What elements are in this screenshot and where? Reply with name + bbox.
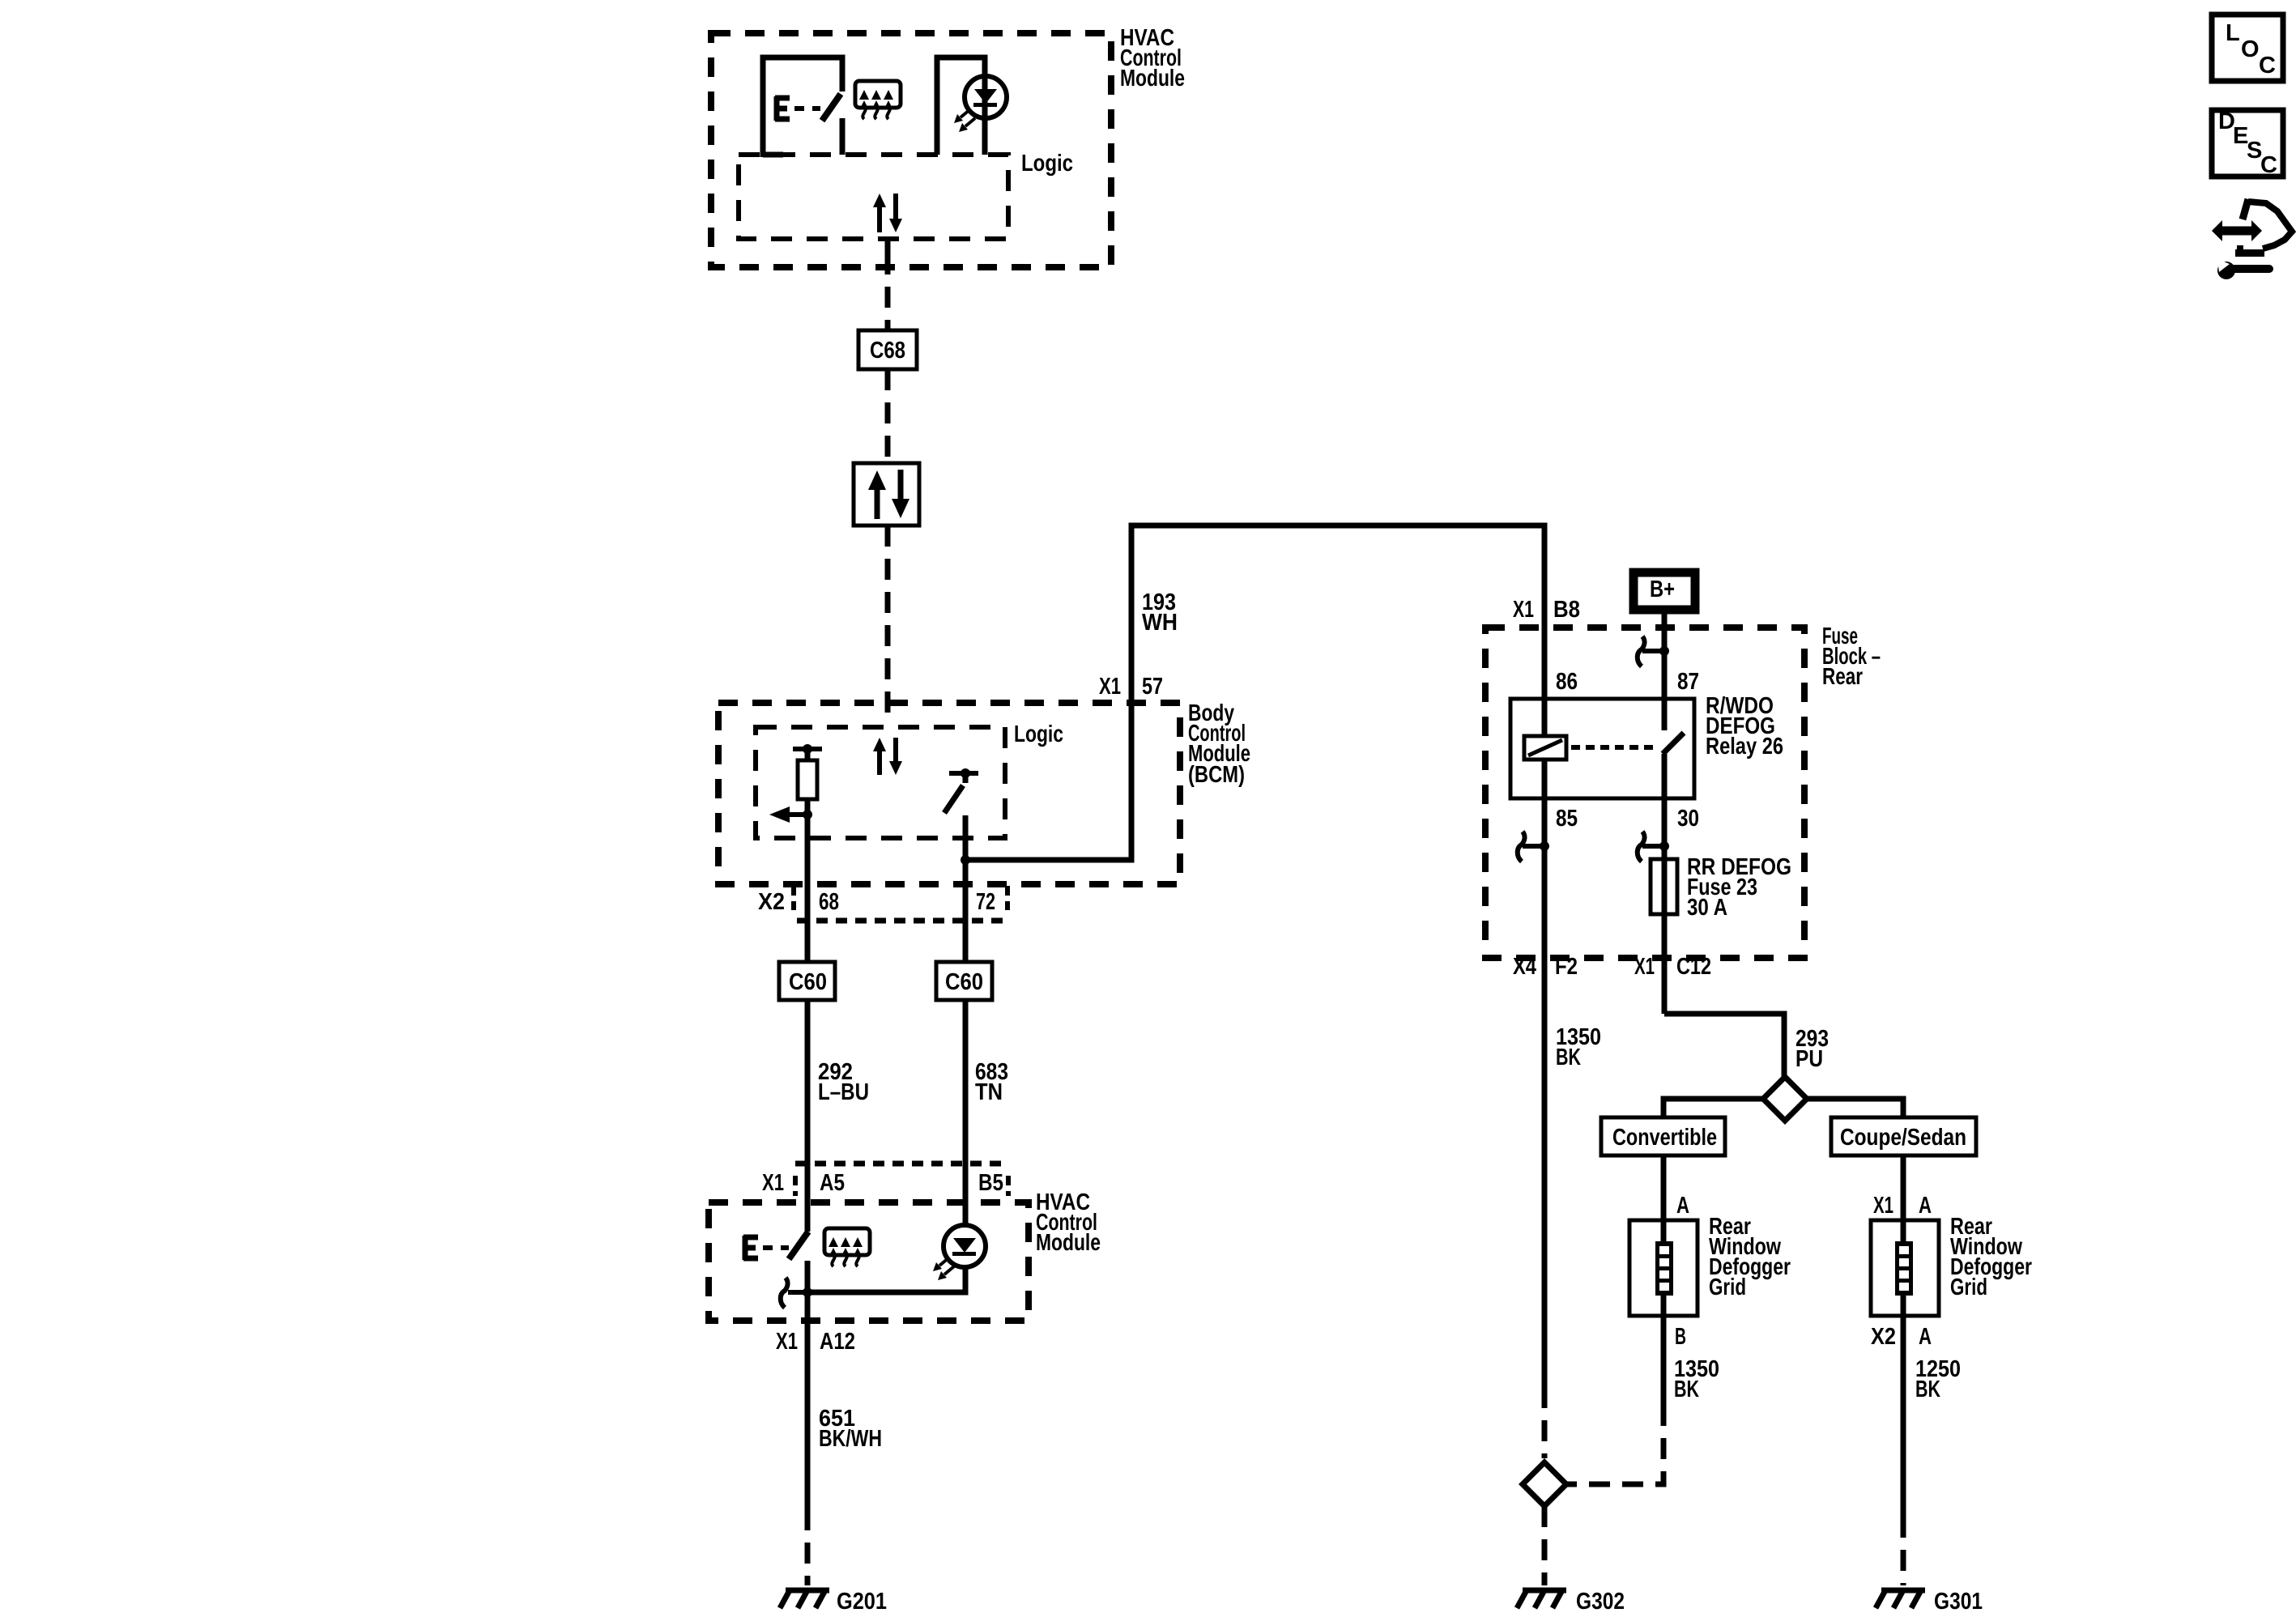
wire label 293 PU (1795, 1026, 1829, 1072)
ground G301 (1876, 1590, 1925, 1608)
svg-text:X1: X1 (1634, 954, 1655, 980)
pin labels X1 B8 (1513, 597, 1580, 623)
HVAC Control Module (top) label (1120, 25, 1185, 91)
svg-text:B8: B8 (1553, 597, 1580, 623)
pin labels X4 F2 X1 C12 (1513, 954, 1711, 980)
connector C68 (858, 330, 917, 369)
svg-text:X1: X1 (776, 1329, 798, 1355)
defog switch housing (top module) (763, 57, 842, 157)
switch actuator E symbol (bottom module) (743, 1236, 758, 1260)
BCM label (1188, 700, 1250, 788)
LED return wire (bottom module) (807, 1267, 965, 1292)
ground terminal hook (bottom module) (781, 1278, 788, 1308)
indicator LED (bottom module) (944, 1225, 986, 1267)
wire 86 from X1 B8 (1542, 628, 1548, 736)
svg-text:Coupe/Sedan: Coupe/Sedan (1840, 1125, 1966, 1151)
pull-up resistor branch tick (BCM) (793, 747, 822, 751)
service icon wrench (2217, 259, 2269, 279)
svg-text:BK: BK (1556, 1045, 1581, 1070)
connector C60 (right) (936, 962, 992, 1000)
svg-text:C12: C12 (1676, 954, 1711, 980)
wire Coupe/Sedan to grid (1901, 1155, 1906, 1241)
svg-text:Grid: Grid (1709, 1274, 1746, 1300)
pin labels X2 68 72 (758, 889, 995, 915)
service icon hand outline (2235, 199, 2292, 257)
wire label 193 WH (1142, 589, 1178, 636)
wire 293 PU (1664, 1014, 1784, 1077)
svg-text:A: A (1919, 1324, 1932, 1350)
svg-text:A12: A12 (820, 1329, 855, 1355)
wire label 1250 BK (1915, 1356, 1961, 1402)
svg-text:C60: C60 (789, 969, 827, 995)
dashed wire 1350 BK to splice (1542, 1387, 1548, 1458)
node at 193 junction (961, 855, 970, 865)
svg-text:WH: WH (1142, 610, 1178, 636)
svg-text:G302: G302 (1576, 1589, 1625, 1615)
relay contact wire 87 (1662, 651, 1668, 730)
dashed wire splice to G302 (1542, 1506, 1548, 1585)
wire label 683 TN (975, 1059, 1008, 1105)
svg-text:O: O (2241, 36, 2260, 62)
heated rear window icon (bottom module) (824, 1228, 870, 1266)
grid label (left) (1709, 1214, 1791, 1300)
BCM switch stub (963, 773, 969, 783)
svg-text:BK: BK (1915, 1377, 1940, 1402)
svg-text:A5: A5 (820, 1170, 845, 1196)
grid element (right) (1895, 1241, 1913, 1296)
serial data wire (module to C68) (885, 240, 891, 330)
wire grid left to B (1661, 1296, 1667, 1405)
switch link dashes (bottom module) (763, 1245, 789, 1250)
up/down comm arrows (top module logic) (873, 194, 902, 232)
switch blade (top module) (822, 94, 841, 121)
wire grid right down (1901, 1296, 1906, 1517)
svg-text:TN: TN (975, 1079, 1003, 1105)
svg-text:30: 30 (1677, 806, 1699, 832)
svg-text:L–BU: L–BU (818, 1079, 869, 1105)
svg-text:X1: X1 (1873, 1193, 1893, 1219)
switch contact bar (BCM) (949, 771, 978, 776)
terminal hook 30 (1638, 832, 1669, 862)
svg-text:Relay 26: Relay 26 (1706, 734, 1783, 760)
LED light arrows (top module) (954, 109, 975, 132)
BCM switch blade (944, 785, 963, 813)
output arrow (BCM) (769, 806, 807, 823)
HVAC Control Module (bottom) label (1036, 1189, 1101, 1256)
dashed wire 1250 BK to G301 (1901, 1517, 1906, 1585)
relay label (1706, 693, 1783, 760)
grid label (right) (1950, 1214, 2032, 1300)
pin labels X2 A (right grid bottom) (1871, 1324, 1932, 1350)
Coupe/Sedan tag box (1831, 1117, 1976, 1155)
svg-text:A: A (1919, 1193, 1932, 1219)
connector X2 line (BCM bottom) (794, 886, 1007, 921)
svg-text:A: A (1676, 1193, 1689, 1219)
wire label 1350 BK (grid) (1674, 1356, 1719, 1402)
svg-text:85: 85 (1556, 806, 1578, 832)
node below resistor (803, 810, 812, 819)
svg-text:X1: X1 (1513, 597, 1534, 623)
svg-text:F2: F2 (1555, 954, 1578, 980)
svg-text:C68: C68 (870, 338, 905, 364)
svg-text:X1: X1 (762, 1170, 784, 1196)
pin labels 85 30 (1556, 806, 1699, 832)
svg-text:X1: X1 (1099, 674, 1121, 700)
svg-text:57: 57 (1142, 674, 1163, 700)
fuse RR DEFOG 23 (1651, 859, 1677, 914)
terminal hook 85 (1518, 832, 1549, 862)
serial data wire (C68 to data box) (885, 369, 891, 463)
ground G201 (780, 1590, 829, 1608)
svg-text:C60: C60 (945, 969, 983, 995)
rear window defogger grid box (left) (1629, 1220, 1698, 1316)
hook lead (bottom module) (788, 1290, 807, 1295)
terminal hook 87 (1638, 636, 1669, 666)
wire 683 TN (963, 1000, 969, 1225)
LOC icon (2212, 15, 2283, 81)
service icon double arrow (2212, 220, 2262, 241)
wire 193 WH net (965, 526, 1544, 860)
grid element (left) (1655, 1241, 1673, 1296)
splice diamond S (293 PU) (1763, 1077, 1807, 1121)
wire 30 (contact to C12) (1662, 754, 1668, 1014)
relay contact blade (1663, 733, 1684, 754)
svg-text:BK: BK (1674, 1377, 1699, 1402)
svg-text:C: C (2259, 53, 2276, 79)
switch fixed contact (top module) (840, 118, 846, 155)
ground G302 (1517, 1590, 1566, 1608)
dashed wire B to splice (1566, 1405, 1663, 1484)
switch actuator E symbol (top module) (775, 96, 790, 121)
wire label 292 L-BU (818, 1059, 869, 1105)
wire 292 (BCM to C60) (805, 815, 811, 962)
serial data wire (data box to BCM) (885, 526, 891, 724)
switch link dashes (top module) (794, 106, 820, 111)
svg-text:Module: Module (1120, 66, 1185, 91)
wire label 1350 BK (fuse block) (1556, 1024, 1601, 1070)
wire 292 L-BU (805, 1000, 811, 1232)
connector X1 line (HVAC bottom module top) (795, 1164, 1009, 1196)
heated rear window icon (top module) (855, 81, 901, 119)
svg-text:86: 86 (1556, 669, 1578, 695)
resistor R (BCM) (798, 749, 817, 815)
svg-text:30 A: 30 A (1687, 895, 1727, 921)
HVAC Control Module (top) dashed box (711, 33, 1111, 267)
svg-text:G301: G301 (1934, 1589, 1983, 1615)
svg-text:68: 68 (819, 889, 839, 915)
splice diamond (G302 branch) (1523, 1462, 1566, 1506)
pin labels X1 A (right grid) (1873, 1193, 1932, 1219)
svg-text:X4: X4 (1513, 954, 1536, 980)
svg-text:Grid: Grid (1950, 1274, 1987, 1300)
relay actuation dashes (1571, 745, 1657, 750)
wire Convertible to grid A (1661, 1155, 1667, 1241)
indicator LED housing (top module) (937, 57, 985, 155)
svg-text:87: 87 (1677, 669, 1699, 695)
Convertible tag box (1601, 1117, 1725, 1155)
svg-text:72: 72 (976, 889, 995, 915)
svg-text:G201: G201 (837, 1589, 887, 1615)
svg-text:Logic: Logic (1014, 721, 1063, 747)
Logic dashed box (BCM) (756, 727, 1005, 838)
wire B+ to terminal 87 (1662, 614, 1668, 651)
wire 85 (coil to X4 F2) (1542, 760, 1548, 1387)
svg-text:Module: Module (1036, 1230, 1101, 1256)
Fuse Block label (1822, 623, 1881, 690)
wire to Coupe/Sedan (1807, 1099, 1903, 1117)
HVAC Control Module (bottom) dashed box (709, 1202, 1029, 1321)
svg-text:Logic: Logic (1021, 151, 1073, 177)
pin labels X1 A5 B5 (762, 1170, 1003, 1196)
indicator LED (top module) (965, 76, 1007, 118)
wire to Convertible (1663, 1099, 1763, 1117)
relay coil (1524, 736, 1566, 760)
node at bottom module junction (803, 1287, 812, 1297)
node at BCM switch (961, 768, 970, 778)
svg-text:Convertible: Convertible (1612, 1125, 1717, 1151)
pin labels 86 87 (1556, 669, 1699, 695)
svg-text:C: C (2260, 152, 2277, 178)
LED light arrows (bottom module) (933, 1257, 954, 1280)
svg-text:Rear: Rear (1822, 664, 1863, 690)
svg-text:BK/WH: BK/WH (819, 1426, 882, 1452)
node at resistor top (803, 744, 812, 754)
pin label X1 57 (BCM) (1099, 674, 1163, 700)
Fuse Block Rear dashed box (1485, 628, 1804, 958)
svg-text:X2: X2 (758, 889, 785, 915)
DESC icon (2212, 109, 2283, 178)
battery feed B+ (1634, 572, 1695, 610)
dashed wire to G201 (805, 1509, 811, 1585)
wire 683 (BCM to C60) (963, 860, 969, 962)
svg-text:B: B (1675, 1324, 1686, 1350)
svg-text:B+: B+ (1650, 577, 1675, 602)
up/down comm arrows (BCM logic) (873, 738, 902, 775)
wire below BCM switch (963, 815, 969, 860)
relay R/WDO DEFOG box (1510, 699, 1694, 798)
svg-text:B5: B5 (978, 1170, 1003, 1196)
svg-text:PU: PU (1795, 1046, 1823, 1072)
wire label 651 BK/WH (819, 1406, 882, 1452)
defog switch blade (bottom module) (789, 1232, 808, 1259)
serial data symbol box (854, 463, 919, 526)
svg-text:(BCM): (BCM) (1188, 762, 1245, 788)
connector C60 (left) (779, 962, 835, 1000)
Body Control Module dashed box (718, 703, 1180, 884)
pin labels X1 A12 (776, 1329, 855, 1355)
Logic dashed box (top module) (739, 155, 1008, 239)
fuse label (1687, 854, 1791, 921)
svg-text:X2: X2 (1871, 1324, 1896, 1350)
svg-text:L: L (2226, 20, 2240, 46)
defog switch lower contact wire (805, 1261, 811, 1509)
rear window defogger grid box (right) (1871, 1220, 1939, 1316)
